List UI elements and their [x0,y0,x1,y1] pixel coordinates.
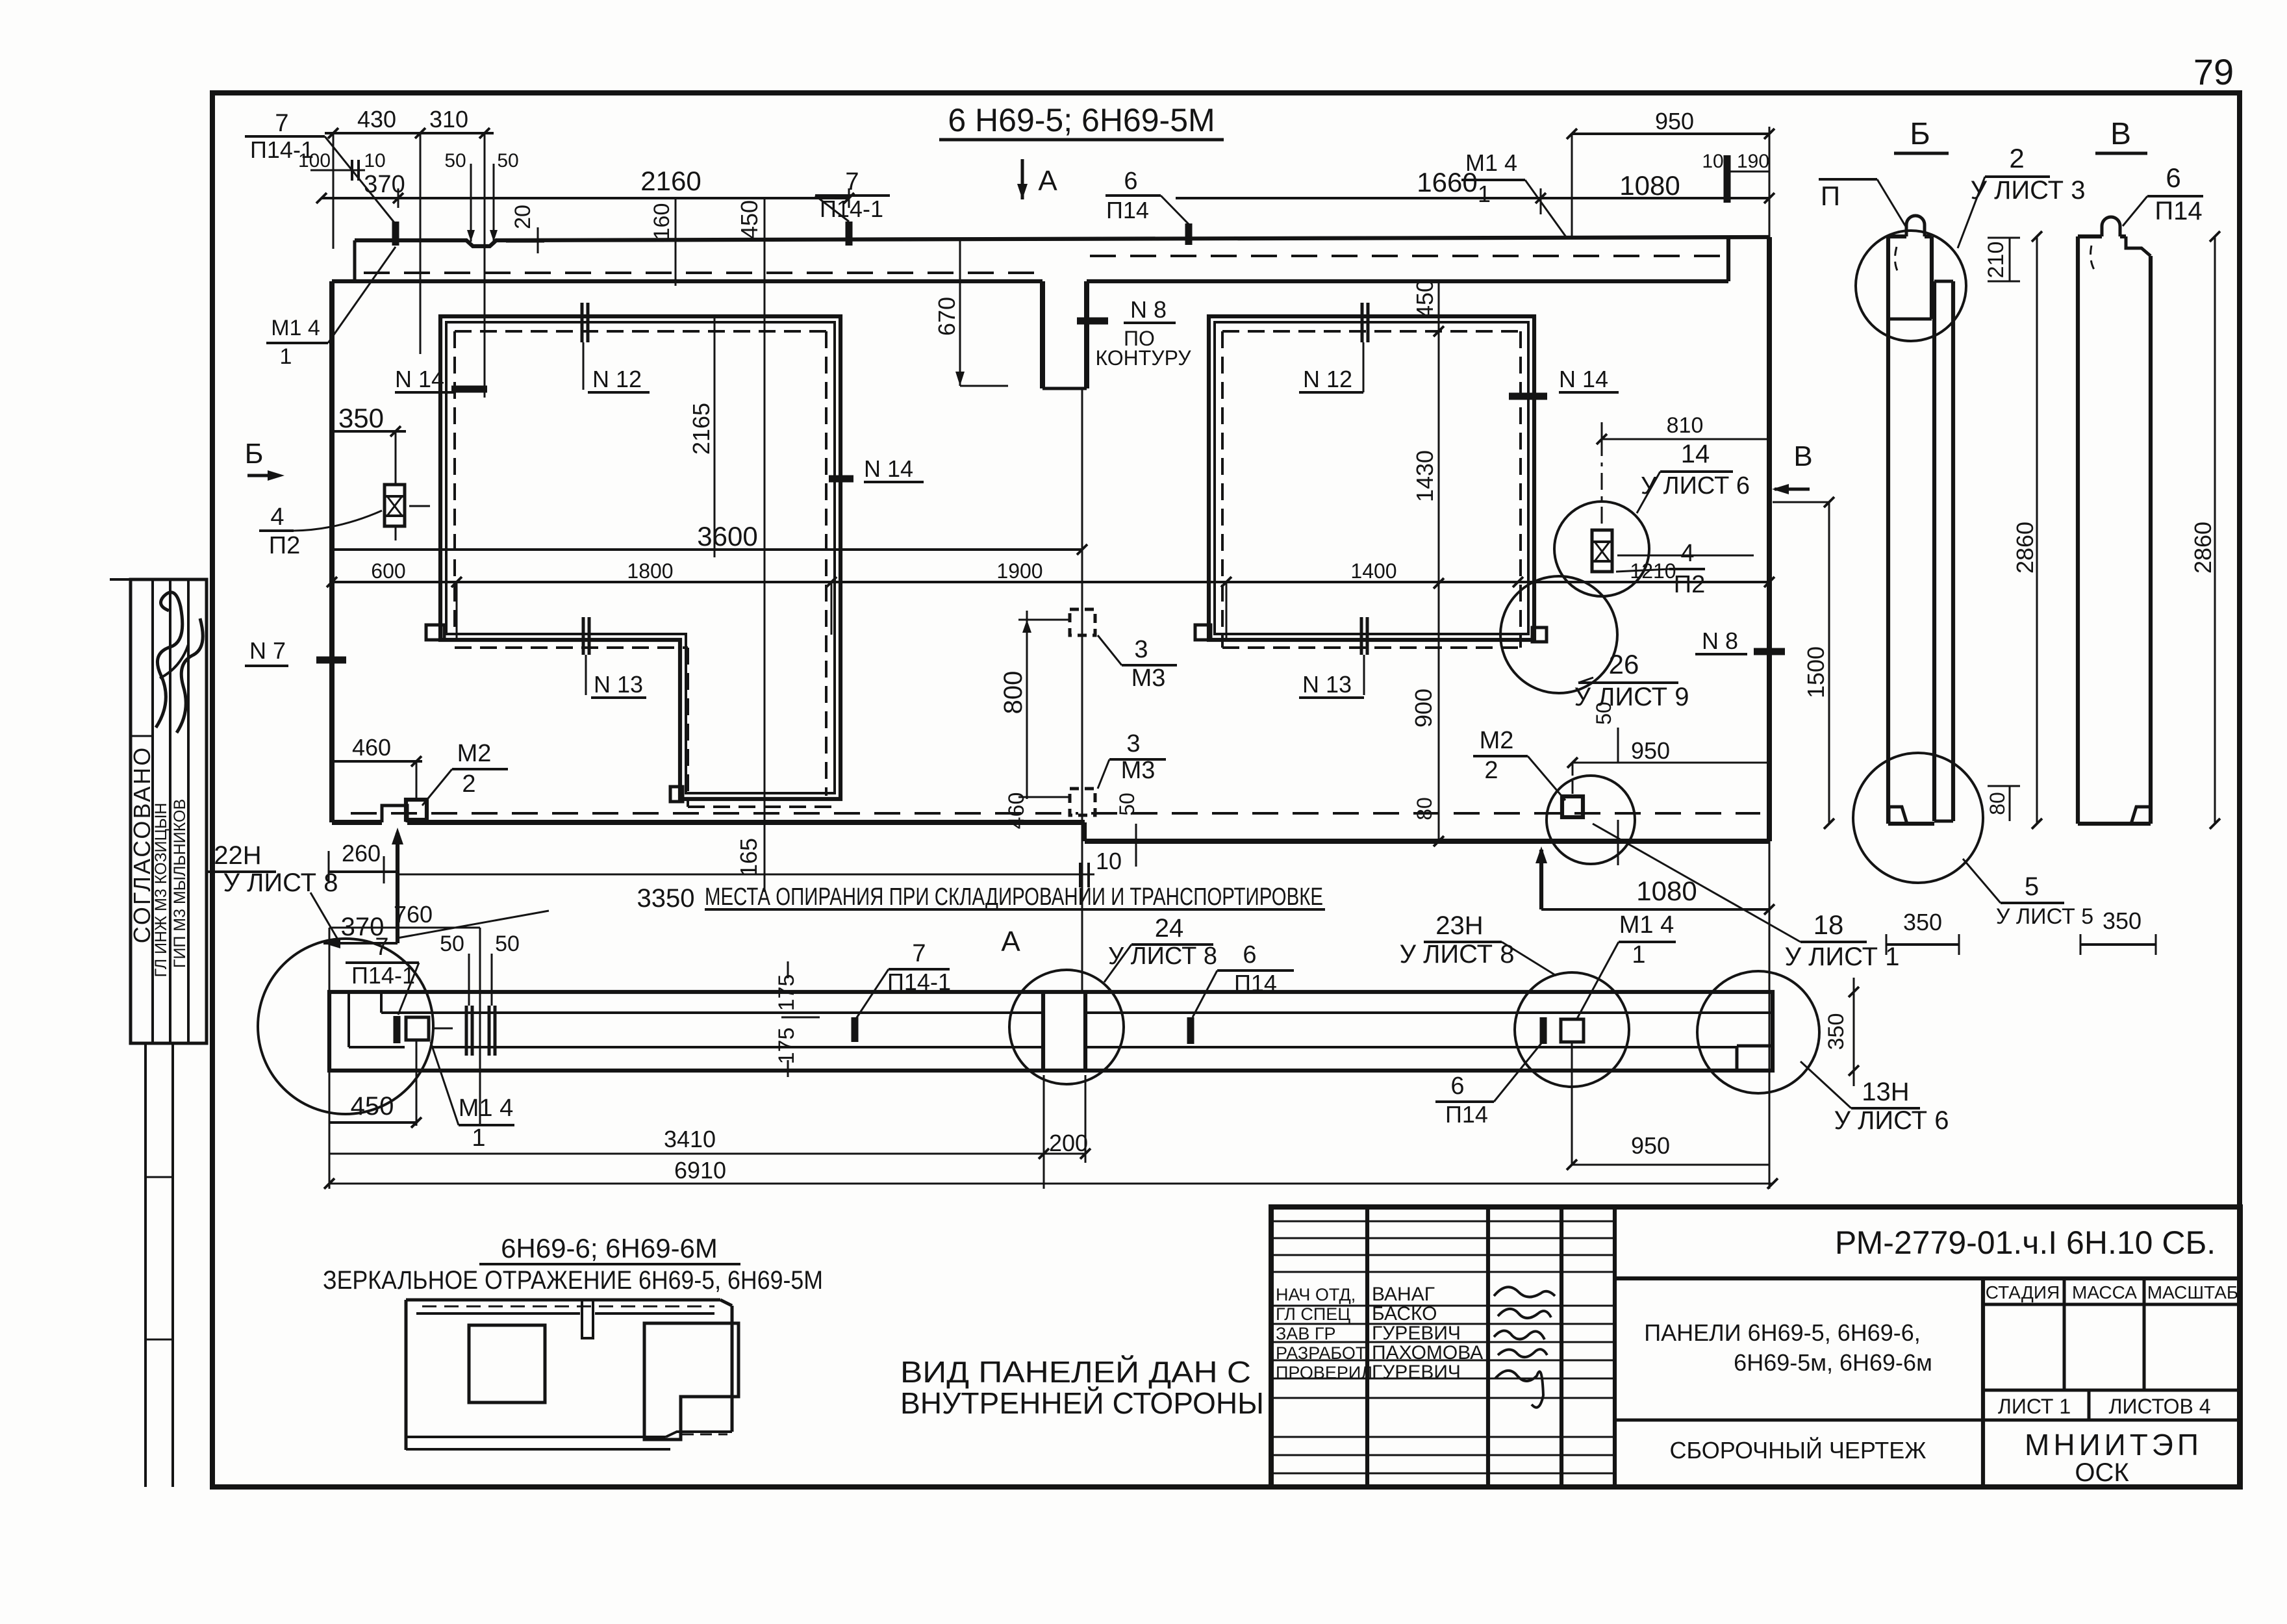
svg-text:N 8: N 8 [1130,296,1167,323]
dim 6910 [324,1157,1778,1189]
svg-text:СБОРОЧНЫЙ ЧЕРТЕЖ: СБОРОЧНЫЙ ЧЕРТЕЖ [1669,1436,1926,1464]
svg-text:350: 350 [338,403,384,433]
detail circle М1 right (23Н) [1515,972,1629,1087]
svg-text:13Н: 13Н [1862,1078,1909,1106]
mirror sketch right window (L-shape) [644,1323,739,1440]
lower section strip outline [329,992,1773,1071]
label 18/У ЛИСТ 1 with long leader [1593,824,1899,971]
dim 810 [1597,413,1769,455]
svg-text:350: 350 [1824,1013,1849,1050]
label 7/П14-1 strip left [346,933,419,1015]
svg-text:80: 80 [1986,792,2009,815]
svg-text:М2: М2 [457,740,492,767]
svg-text:6: 6 [1450,1072,1464,1100]
svg-text:У ЛИСТ 8: У ЛИСТ 8 [1400,940,1515,969]
svg-text:М2: М2 [1480,727,1514,754]
stamp rotated text ГИП М3 МЫЛЬНИКОВ [171,799,189,968]
label 3/М3 upper [1098,635,1177,692]
anchor M3 upper [1070,572,1095,635]
stamp signatures [156,592,203,733]
svg-text:НАЧ ОТД,: НАЧ ОТД, [1276,1285,1356,1304]
label 2/У ЛИСТ 3 [1958,143,2085,248]
dim 1500 [1773,497,1834,829]
label 13Н/У ЛИСТ 6 [1801,1061,1949,1135]
svg-text:П14: П14 [1106,197,1149,223]
label 23Н/У ЛИСТ 8 [1400,911,1556,976]
anchor M2 right in circle [1547,776,1635,864]
svg-text:П14: П14 [1445,1101,1488,1128]
svg-text:N 12: N 12 [1303,366,1352,392]
svg-text:РМ-2779-01.ч.I 6Н.10 СБ.: РМ-2779-01.ч.I 6Н.10 СБ. [1835,1224,2216,1261]
svg-text:950: 950 [1655,108,1694,134]
svg-text:450: 450 [351,1092,394,1121]
label М1 4/1 strip left [431,1042,514,1152]
marker Б with arrow (left) [245,438,284,481]
svg-text:190: 190 [1737,151,1769,172]
svg-text:А: А [1001,926,1020,958]
svg-text:Б: Б [245,438,264,470]
title block stage table [1983,1278,2240,1487]
strip П14 tick middle [1187,1017,1194,1044]
right window foot blocks [1195,625,1547,642]
stamp lower columns [145,1043,173,1487]
label 4/П2 left [259,503,382,559]
left approval stamp box [110,579,207,1043]
svg-text:50: 50 [444,150,466,171]
section arrow А top [1017,159,1057,199]
title 6 Н69-5; 6Н69-5М [939,102,1224,140]
dim 20 notch [506,205,544,253]
label 4/П2 right [1616,540,1705,598]
svg-text:7: 7 [912,940,926,967]
svg-text:П: П [1821,181,1840,211]
svg-text:М1 4: М1 4 [459,1095,513,1122]
strip M1 anchor left [397,1016,453,1043]
title block names column 1 [1276,1285,1372,1382]
svg-text:600: 600 [371,559,405,583]
strip right end step [1737,1046,1773,1071]
svg-text:260: 260 [342,840,381,867]
dim 2860 right [2190,231,2220,829]
dim 370 handwritten top-left [364,171,405,198]
dim 350 under Б [1886,909,1959,955]
dim 3600 [332,521,1087,555]
svg-text:2: 2 [2009,143,2024,173]
top slot in panel [1042,281,1087,388]
section В label [2095,117,2147,153]
svg-text:175: 175 [774,1028,799,1065]
svg-text:1: 1 [472,1124,485,1152]
dim 950 strip right [1567,1042,1769,1170]
svg-text:ОСК: ОСК [2075,1458,2129,1487]
title block ruled lines left part [1271,1221,1615,1473]
svg-text:950: 950 [1631,737,1670,764]
svg-text:ЛИСТ 1: ЛИСТ 1 [1998,1395,2071,1418]
svg-text:М1 4: М1 4 [1619,911,1674,939]
border frame [212,93,2240,1487]
text МЕСТА ОПИРАНИЯ [705,883,1325,911]
dim 3350/10 [398,848,1122,913]
main top dim line 370+2160+1660+1080 [316,166,1775,214]
detail circle 14/У ЛИСТ 6 [1554,440,1750,596]
label 24/У ЛИСТ 8 center circle [1104,914,1217,982]
anchor П2 right symbol with leader line [1592,439,1754,572]
dim 670 slot [933,240,1008,386]
svg-text:В: В [1793,440,1812,472]
svg-text:ВИД ПАНЕЛЕЙ ДАН С: ВИД ПАНЕЛЕЙ ДАН С [900,1355,1251,1389]
svg-text:ГУРЕВИЧ: ГУРЕВИЧ [1372,1362,1461,1383]
dim 1080 bottom with support arrow [1535,841,1775,1189]
section Б detail circle bottom [1853,753,1983,883]
svg-text:N 8: N 8 [1702,628,1738,654]
svg-text:ПАНЕЛИ 6Н69-5, 6Н69-6,: ПАНЕЛИ 6Н69-5, 6Н69-6, [1644,1319,1921,1346]
tick 50 near lower M3 [1115,793,1139,867]
svg-text:460: 460 [352,734,391,761]
section Б label [1894,117,1949,153]
dim 3410/200 [329,1075,1091,1189]
title block outer [1271,1207,2240,1487]
svg-text:460: 460 [1004,793,1029,830]
svg-text:6910: 6910 [674,1157,726,1184]
vertical dim chain 450/1430/900 right [1410,279,1444,846]
mirror sketch left window [469,1325,545,1402]
svg-text:У ЛИСТ 8: У ЛИСТ 8 [223,869,338,897]
svg-text:У ЛИСТ 6: У ЛИСТ 6 [1834,1106,1949,1135]
svg-text:6: 6 [1243,941,1256,969]
svg-text:1: 1 [1632,941,1645,969]
svg-text:3: 3 [1134,636,1148,663]
N 14 left label [395,366,487,392]
dim 800 with M3 anchors [999,611,1070,829]
svg-text:200: 200 [1049,1130,1088,1156]
marker В with arrow (right of panel) [1772,440,1813,494]
svg-text:У ЛИСТ 8: У ЛИСТ 8 [1108,943,1217,970]
detail circle center (24) [1009,970,1124,1084]
dim 50/50 arrows top-left [444,150,518,242]
svg-text:ГУРЕВИЧ: ГУРЕВИЧ [1372,1323,1461,1344]
svg-text:П2: П2 [269,532,300,559]
dim 950 mid-right [1567,737,1769,796]
svg-text:N 13: N 13 [594,671,643,698]
vertical dim line 2165 [688,318,714,557]
label 22Н/У ЛИСТ 8 [207,841,338,939]
svg-text:24: 24 [1155,914,1184,943]
svg-text:350: 350 [2103,907,2142,934]
dim 350 left [333,403,406,540]
svg-text:22Н: 22Н [214,841,261,870]
svg-text:РАЗРАБОТ.: РАЗРАБОТ. [1276,1343,1369,1363]
svg-text:2: 2 [462,770,475,798]
svg-text:310: 310 [429,106,468,133]
detail circle right end (13Н) [1697,971,1819,1093]
svg-text:6: 6 [2166,162,2180,193]
svg-text:3: 3 [1126,730,1140,757]
svg-text:П2: П2 [1674,571,1705,598]
svg-text:430: 430 [357,106,396,133]
svg-text:18: 18 [1813,909,1844,940]
svg-text:У ЛИСТ 5: У ЛИСТ 5 [1996,904,2093,929]
svg-text:1400: 1400 [1350,559,1396,583]
svg-text:79: 79 [2193,51,2234,92]
dim 350 under В [2080,907,2156,955]
section Б body [1888,236,1953,824]
svg-text:2165: 2165 [688,403,714,455]
label М1 4/1 top [1461,149,1567,238]
support arrow 1 below panel [392,828,549,943]
svg-text:МАССА: МАССА [2072,1282,2137,1302]
svg-text:У ЛИСТ 1: У ЛИСТ 1 [1785,943,1900,971]
label 6/П14 top [1106,168,1189,245]
svg-text:П14: П14 [1234,970,1277,996]
svg-text:1900: 1900 [996,559,1042,583]
section Б detail circle top [1856,231,1966,341]
strip M1 anchor right [1543,1017,1584,1044]
left window opening [440,316,840,807]
detail circle left end (22Н) [258,939,433,1114]
strip slot center [1043,992,1085,1071]
svg-text:В: В [2110,117,2131,151]
label 7/П14-1 top-left [245,110,396,246]
svg-text:50: 50 [440,932,464,956]
label М1 4/1 panel top-left [266,247,396,369]
dim 450 strip left [329,1040,422,1128]
svg-text:N 12: N 12 [592,366,642,392]
section В body [2078,236,2151,824]
left window foot blocks [426,625,683,802]
dim 260 bottom-left [329,840,398,883]
label П [1819,179,1907,229]
svg-text:950: 950 [1631,1132,1670,1159]
svg-text:165: 165 [735,838,762,877]
N 12 left ticks and label [582,303,650,392]
N 8 label top (po konturu) [1077,296,1191,370]
N 13 right ticks and label [1299,617,1367,698]
tick 50 right bottom [1592,702,1618,865]
svg-text:50: 50 [497,150,518,171]
panel bottom hidden dashed line [351,812,1760,815]
dim 10/190 top-right [1702,151,1769,203]
svg-text:ЗАВ ГР: ЗАВ ГР [1276,1324,1335,1343]
svg-text:670: 670 [933,297,960,336]
svg-text:N 7: N 7 [249,637,286,664]
mirror sketch center notch [582,1300,593,1338]
dim 430/310 top-left [325,106,494,398]
title block names column 2 [1372,1284,1483,1383]
panel outline [332,237,1769,841]
svg-text:N 13: N 13 [1302,671,1352,698]
svg-text:80: 80 [1413,797,1436,820]
svg-text:1800: 1800 [627,559,673,583]
svg-text:175: 175 [774,974,799,1011]
svg-text:ПАХОМОВА: ПАХОМОВА [1372,1342,1483,1364]
dim 350 strip right [1824,978,1859,1086]
dim chain 600 1800 1900 1400 1210 [327,559,1775,640]
dims 175/175 [774,961,820,1077]
panel top strip [355,237,1769,281]
svg-text:810: 810 [1667,413,1704,438]
svg-text:МАСШТАБ: МАСШТАБ [2147,1282,2239,1302]
N 7 label [245,637,346,666]
title block panel names [1615,1319,1983,1464]
svg-text:1430: 1430 [1411,450,1438,502]
detail circle 26/У ЛИСТ 9 [1500,576,1689,711]
svg-text:МЕСТА ОПИРАНИЯ ПРИ СКЛАДИРОВАН: МЕСТА ОПИРАНИЯ ПРИ СКЛАДИРОВАНИИ И ТРАНС… [705,883,1323,911]
svg-text:10: 10 [364,150,385,171]
svg-text:3350: 3350 [637,884,695,913]
svg-text:50: 50 [495,932,520,956]
svg-text:1: 1 [1478,181,1491,207]
svg-text:А: А [1038,165,1057,197]
N 8 label right [1695,628,1785,654]
title block МНИИТЭП ОСК [2025,1428,2203,1487]
svg-text:N 14: N 14 [864,455,913,482]
strip tick pairs 50/50 [466,954,495,1056]
svg-text:20: 20 [511,205,535,229]
svg-text:ПРОВЕРИЛ: ПРОВЕРИЛ [1276,1363,1372,1382]
svg-text:3600: 3600 [697,521,757,552]
svg-text:6Н69-5м, 6Н69-6м: 6Н69-5м, 6Н69-6м [1734,1349,1932,1376]
label 7/П14-1 top-middle [815,168,890,246]
svg-text:350: 350 [1903,909,1942,935]
label 7/П14-1 strip middle [855,940,951,1042]
label 6/П14 strip upper [1193,941,1294,1017]
N 14 middle label [829,455,924,482]
N 13 left ticks and label [583,617,646,698]
svg-text:2160: 2160 [640,166,701,196]
svg-text:800: 800 [999,671,1028,715]
svg-text:4: 4 [270,503,284,531]
svg-text:ГЛ ИНЖ М3 КОЗИЦЫН: ГЛ ИНЖ М3 КОЗИЦЫН [152,803,170,978]
svg-text:7: 7 [375,933,388,961]
svg-text:1080: 1080 [1619,170,1680,201]
strip dim 50/50 texts [440,932,520,956]
label М1 4/1 strip right [1577,911,1676,1019]
svg-text:П14-1: П14-1 [351,962,415,989]
right window opening [1209,316,1534,648]
svg-text:210: 210 [1984,242,2008,279]
svg-text:М1 4: М1 4 [1465,149,1517,176]
dim 760 [329,901,480,1189]
svg-text:4: 4 [1680,540,1694,567]
svg-text:П14-1: П14-1 [887,969,951,995]
svg-text:ГЛ СПЕЦ: ГЛ СПЕЦ [1276,1304,1350,1324]
svg-text:2: 2 [1484,757,1498,784]
svg-text:6: 6 [1124,168,1137,195]
svg-text:7: 7 [845,168,859,196]
svg-text:П14: П14 [2154,197,2202,225]
svg-text:ЛИСТОВ 4: ЛИСТОВ 4 [2108,1395,2210,1418]
mirror sketch outline [406,1300,732,1450]
svg-text:М3: М3 [1121,757,1156,784]
svg-text:6 Н69-5; 6Н69-5М: 6 Н69-5; 6Н69-5М [948,102,1215,138]
svg-text:7: 7 [275,110,288,137]
letter А strip [1001,926,1020,958]
label М2/2 right [1473,727,1565,800]
svg-text:МНИИТЭП: МНИИТЭП [2025,1428,2203,1462]
svg-text:10: 10 [1702,151,1723,172]
stamp rotated text СОГЛАСОВАНО [129,746,155,944]
title block signatures [1494,1287,1555,1407]
svg-text:БАСКО: БАСКО [1372,1303,1437,1325]
dim 950 top-right [1567,108,1775,238]
dim 80 [1986,786,2020,821]
dim 210 [1984,238,2020,281]
svg-text:450: 450 [1411,279,1438,318]
mirror title 6Н69-6; 6Н69-6М [323,1233,823,1295]
anchor M2 left with label 460 [333,734,427,820]
svg-text:160: 160 [650,203,674,240]
svg-text:ВНУТРЕННЕЙ СТОРОНЫ: ВНУТРЕННЕЙ СТОРОНЫ [900,1386,1264,1420]
svg-text:М1 4: М1 4 [271,316,320,340]
note text ВИД ПАНЕЛЕЙ [900,1355,1264,1420]
svg-text:N 14: N 14 [395,366,444,392]
svg-text:Б: Б [1910,117,1930,151]
svg-text:М3: М3 [1131,665,1166,692]
vertical line from slot to lower dims [1081,388,1083,992]
N 12 right ticks and label [1299,303,1368,392]
svg-text:14: 14 [1681,440,1710,468]
svg-text:450: 450 [736,200,763,239]
svg-text:6Н69-6; 6Н69-6М: 6Н69-6; 6Н69-6М [501,1233,718,1263]
svg-text:50: 50 [1115,793,1139,816]
svg-text:2860: 2860 [2012,522,2038,574]
vertical dim line 450/165 [735,198,764,892]
svg-text:СОГЛАСОВАНО: СОГЛАСОВАНО [129,746,155,944]
dim 2860 left [2012,231,2042,829]
label 5/У ЛИСТ 5 [1963,859,2093,929]
svg-text:КОНТУРУ: КОНТУРУ [1095,346,1191,370]
svg-text:1080: 1080 [1636,876,1697,906]
svg-text:ЗЕРКАЛЬНОЕ ОТРАЖЕНИЕ 6Н69-5, 6: ЗЕРКАЛЬНОЕ ОТРАЖЕНИЕ 6Н69-5, 6Н69-5М [323,1266,823,1295]
section В top tab [2091,217,2120,273]
svg-text:1500: 1500 [1802,646,1829,698]
svg-text:10: 10 [1096,848,1122,874]
title block header РМ-2779 [1615,1224,2240,1278]
section Б top tab П [1895,216,1925,275]
anchor M3 lower [1070,747,1095,815]
label М2/2 left [422,740,508,806]
svg-text:У ЛИСТ 9: У ЛИСТ 9 [1574,683,1689,711]
svg-text:3410: 3410 [664,1126,716,1152]
svg-text:СТАДИЯ: СТАДИЯ [1986,1282,2060,1302]
N 14 right label [1509,366,1619,396]
svg-text:2860: 2860 [2190,522,2216,574]
svg-text:N 14: N 14 [1559,366,1608,392]
svg-text:23Н: 23Н [1435,911,1483,940]
svg-text:У ЛИСТ 3: У ЛИСТ 3 [1971,176,2086,205]
anchor П2 left symbol [385,485,430,526]
svg-text:760: 760 [394,901,433,928]
label 6/П14 section В [2123,162,2203,226]
dim 100/10 [298,150,386,181]
svg-text:П14-1: П14-1 [820,196,883,222]
svg-text:26: 26 [1609,649,1639,679]
svg-text:5: 5 [2025,872,2039,901]
dim 370 bottom-left with arrow [323,913,398,948]
svg-text:ГИП М3 МЫЛЬНИКОВ: ГИП М3 МЫЛЬНИКОВ [171,799,189,968]
stamp rotated text ГЛ ИНЖ М3 КОЗИЦЫН [152,803,170,978]
dim 160 tick [650,198,676,286]
svg-text:900: 900 [1410,689,1437,728]
svg-text:П14-1: П14-1 [250,136,314,163]
svg-text:ВАНАГ: ВАНАГ [1372,1284,1435,1305]
svg-text:1: 1 [280,344,292,369]
label 3/М3 lower [1098,730,1166,789]
label 6/П14 strip lower [1435,1043,1541,1128]
